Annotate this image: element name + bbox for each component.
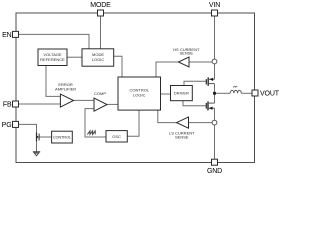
pin PG	[2, 121, 19, 128]
transistor Q2 high-side MOSFET	[206, 77, 214, 85]
op-amp error amplifier	[55, 82, 76, 107]
box OSC	[106, 131, 127, 142]
svg-text:AMPLIFIER: AMPLIFIER	[55, 86, 76, 91]
svg-text:PG: PG	[2, 122, 12, 129]
sawtooth ramp waveform	[87, 131, 95, 135]
svg-text:REFERENCE: REFERENCE	[40, 57, 65, 62]
node LS current sense tap	[212, 120, 217, 125]
wire MODE pin to mode logic	[100, 16, 102, 49]
IC boundary border	[16, 13, 255, 163]
wire error amplifier output to comparator	[74, 99, 95, 101]
box CONTROL (power good)	[52, 131, 73, 143]
wire switch node to LS drain	[214, 93, 216, 103]
svg-text:CONTROL: CONTROL	[53, 136, 71, 140]
wire transistor source to ground	[36, 141, 38, 151]
wire HS sense node to HS drain	[214, 64, 216, 79]
svg-text:DRIVER: DRIVER	[174, 91, 189, 96]
wire LS current sense output to control logic	[158, 110, 177, 123]
svg-text:COMP: COMP	[94, 91, 106, 96]
svg-text:SENSE: SENSE	[175, 134, 189, 139]
node switch node junction	[213, 92, 216, 95]
transistor Q1 PG open-drain	[37, 132, 40, 141]
wire FB to error amplifier input	[19, 103, 61, 105]
pin EN	[2, 31, 18, 38]
pin VIN	[209, 2, 220, 16]
svg-text:LOGIC: LOGIC	[133, 93, 146, 98]
wire PG to open-drain transistor	[19, 124, 37, 132]
ground	[33, 152, 40, 156]
wire control logic to OSC	[127, 110, 139, 136]
wire driver to LS gate	[183, 101, 206, 106]
wire EN to mode logic	[19, 34, 90, 48]
svg-text:SENSE: SENSE	[180, 51, 194, 56]
pin FB	[3, 101, 19, 108]
wire HS source to switch node	[214, 84, 216, 94]
comparator COMP	[94, 91, 107, 111]
wire voltage reference to error amplifier input	[46, 66, 60, 97]
amp HS current sense	[173, 47, 200, 67]
amp LS current sense	[169, 117, 195, 139]
svg-text:VIN: VIN	[209, 2, 220, 9]
pin MODE	[90, 2, 111, 16]
svg-text:OSC: OSC	[112, 134, 121, 139]
wire voltage reference to mode logic	[67, 56, 82, 58]
svg-text:MODE: MODE	[90, 2, 111, 9]
wire LS source down to LS sense node	[214, 108, 216, 120]
wire comparator output to control logic	[107, 103, 118, 105]
svg-text:LOGIC: LOGIC	[92, 57, 105, 62]
wire LS current sense input	[189, 122, 213, 124]
wire switch node to inductor	[215, 92, 231, 94]
wire VIN to HS sense node	[214, 16, 216, 59]
node HS current sense tap	[212, 59, 217, 64]
svg-text:EN: EN	[2, 32, 12, 39]
box voltage reference	[38, 49, 67, 66]
svg-text:FB: FB	[3, 101, 12, 108]
svg-text:GND: GND	[207, 168, 222, 175]
wire mode logic to control logic	[114, 56, 122, 77]
inductor coil	[230, 86, 241, 93]
svg-text:VOUT: VOUT	[260, 91, 280, 98]
transistor Q3 low-side MOSFET	[206, 101, 214, 110]
wire HS current sense input	[189, 61, 212, 63]
wire inductor to VOUT	[241, 92, 252, 94]
wire LS sense node to GND pin	[214, 125, 216, 159]
box control logic	[118, 77, 161, 110]
pin VOUT	[252, 90, 280, 98]
pin GND	[207, 159, 222, 175]
wire control logic to driver	[161, 93, 171, 95]
wire OSC to comparator input	[85, 109, 106, 137]
box driver	[171, 86, 193, 101]
wire HS current sense output to control logic	[156, 62, 178, 77]
box mode logic	[82, 49, 114, 66]
wire driver to HS gate	[184, 81, 206, 85]
wire CONTROL box to transistor gate	[39, 136, 52, 138]
